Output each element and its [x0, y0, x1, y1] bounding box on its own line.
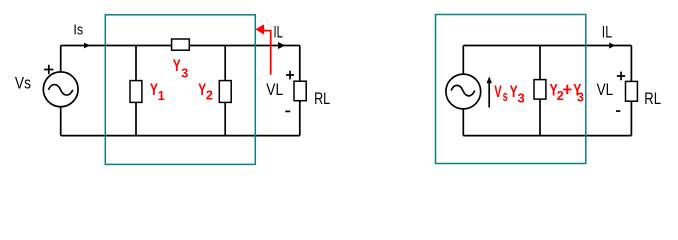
admittance Y1: [130, 81, 142, 103]
svg-text:RL: RL: [644, 89, 661, 108]
wire RL branch top: [630, 46, 632, 82]
resistor RL: [626, 81, 638, 101]
voltage source Vs (circle): [43, 72, 78, 107]
svg-text:s: s: [503, 88, 508, 105]
minus sign of voltage VL: [285, 110, 290, 112]
wire bottom rail: [61, 135, 300, 137]
current source VsY3 (circle): [446, 74, 481, 109]
svg-text:V: V: [494, 83, 502, 102]
svg-text:1: 1: [158, 89, 165, 103]
arrowhead of current IL: [609, 43, 615, 49]
sine symbol of source Vs: [48, 85, 72, 96]
wire source vertical top: [60, 46, 62, 73]
svg-text:3: 3: [577, 90, 584, 104]
admittance Y3 (series): [172, 39, 190, 50]
sine symbol of source VsY3: [451, 85, 475, 96]
minus sign of voltage VL: [616, 110, 620, 112]
svg-text:2: 2: [206, 88, 213, 102]
wire RL branch bottom: [630, 101, 632, 135]
svg-text:3: 3: [181, 67, 188, 81]
wire source vertical bottom: [462, 109, 464, 136]
Norton equivalent box (teal): [436, 15, 586, 164]
plus sign of source Vs: [44, 65, 53, 75]
wire top rail: [463, 45, 631, 47]
plus sign of voltage VL: [617, 72, 625, 81]
plus sign of voltage VL: [286, 71, 294, 80]
arrowhead of current Is: [84, 43, 90, 49]
wire Y2 branch top: [224, 46, 226, 81]
wire bottom rail: [463, 135, 631, 137]
wire shunt branch bottom: [539, 99, 541, 136]
wire RL branch top: [299, 46, 301, 82]
arrowhead of current IL: [278, 42, 285, 49]
wire shunt branch top: [539, 46, 541, 80]
svg-text:3: 3: [518, 91, 525, 106]
svg-text:VL: VL: [266, 81, 283, 100]
svg-text:IL: IL: [274, 23, 283, 42]
admittance Y2: [219, 81, 231, 103]
wire Y1 branch top: [135, 46, 137, 81]
two-port network box (teal): [105, 15, 255, 165]
svg-text:RL: RL: [314, 89, 330, 108]
svg-text:VL: VL: [597, 81, 614, 100]
wire source vertical top: [462, 46, 464, 75]
wire top rail: [61, 45, 300, 47]
wire Y1 branch bottom: [135, 102, 137, 135]
svg-text:IL: IL: [602, 24, 612, 42]
svg-text:Y: Y: [173, 57, 181, 75]
resistor RL: [294, 81, 306, 101]
svg-text:Is: Is: [73, 22, 83, 38]
wire RL branch bottom: [299, 101, 301, 136]
admittance Y2+Y3: [534, 80, 546, 100]
wire source vertical bottom: [60, 107, 62, 136]
red current probe arrow for IL: [264, 31, 271, 75]
svg-text:2: 2: [557, 89, 564, 103]
wire Y2 branch bottom: [224, 102, 226, 135]
svg-text:Vs: Vs: [15, 74, 31, 93]
upward current direction arrow of source: [488, 83, 490, 108]
